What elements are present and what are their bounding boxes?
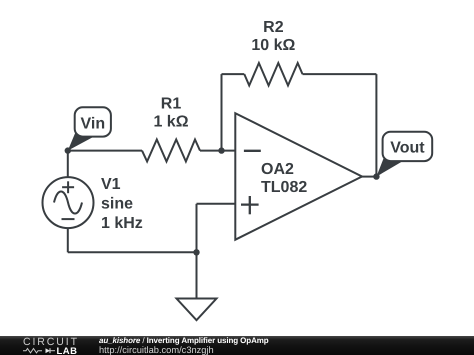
svg-text:Vout: Vout (390, 140, 425, 157)
wire Vin node to R1 (68, 150, 142, 152)
wire bottom horizontal V1 to node D (68, 251, 197, 253)
svg-text:1 kHz: 1 kHz (101, 215, 143, 232)
svg-text:R2: R2 (263, 19, 284, 36)
V1 sine symbol (54, 191, 82, 213)
wire R1 to op-amp minus input (200, 150, 235, 152)
svg-text:au_kishore / Inverting Amplifi: au_kishore / Inverting Amplifier using O… (99, 336, 269, 345)
wire feedback vertical at node B (221, 74, 223, 151)
Vin flag box (75, 107, 111, 136)
wire node D to ground (196, 252, 198, 298)
svg-text:http://circuitlab.com/c3nzgjh: http://circuitlab.com/c3nzgjh (99, 345, 214, 355)
node C (output) (373, 173, 379, 179)
svg-text:10 kΩ: 10 kΩ (251, 37, 295, 54)
V1 plus sign (62, 181, 74, 193)
Vin flag pointer (68, 131, 95, 151)
node B (inverting input) (218, 147, 224, 153)
svg-text:1 kΩ: 1 kΩ (153, 114, 188, 131)
wire to R2 left (222, 73, 245, 75)
op-amp plus sign (241, 196, 259, 214)
svg-text:LAB: LAB (57, 346, 78, 355)
wire R2 right to corner (303, 73, 377, 75)
Vout flag pointer (376, 156, 403, 177)
svg-text:V1: V1 (101, 176, 121, 193)
wire plus input (197, 203, 236, 205)
logo resistor squiggle (23, 349, 42, 353)
node D (bottom) (193, 249, 199, 255)
wire V1 top lead (67, 151, 69, 178)
wire V1 bottom lead (67, 228, 69, 252)
wire feedback down to output node (375, 74, 377, 177)
Vout flag box (383, 132, 433, 161)
ground (177, 299, 217, 321)
resistor R2 (244, 63, 302, 86)
logo diode (46, 348, 51, 353)
resistor R1 (142, 140, 200, 162)
node A (Vin) (65, 147, 71, 153)
op-amp minus sign (244, 150, 261, 152)
wire plus input vertical (196, 204, 198, 253)
op-amp OA2 (235, 113, 362, 240)
wire op-amp output to node C (361, 176, 376, 178)
V1 minus sign (62, 218, 75, 220)
svg-text:sine: sine (101, 196, 133, 213)
svg-text:OA2: OA2 (261, 161, 294, 178)
svg-text:Vin: Vin (80, 115, 105, 132)
svg-text:TL082: TL082 (261, 179, 307, 196)
voltage source V1 circle (43, 177, 94, 228)
svg-text:R1: R1 (161, 96, 182, 113)
